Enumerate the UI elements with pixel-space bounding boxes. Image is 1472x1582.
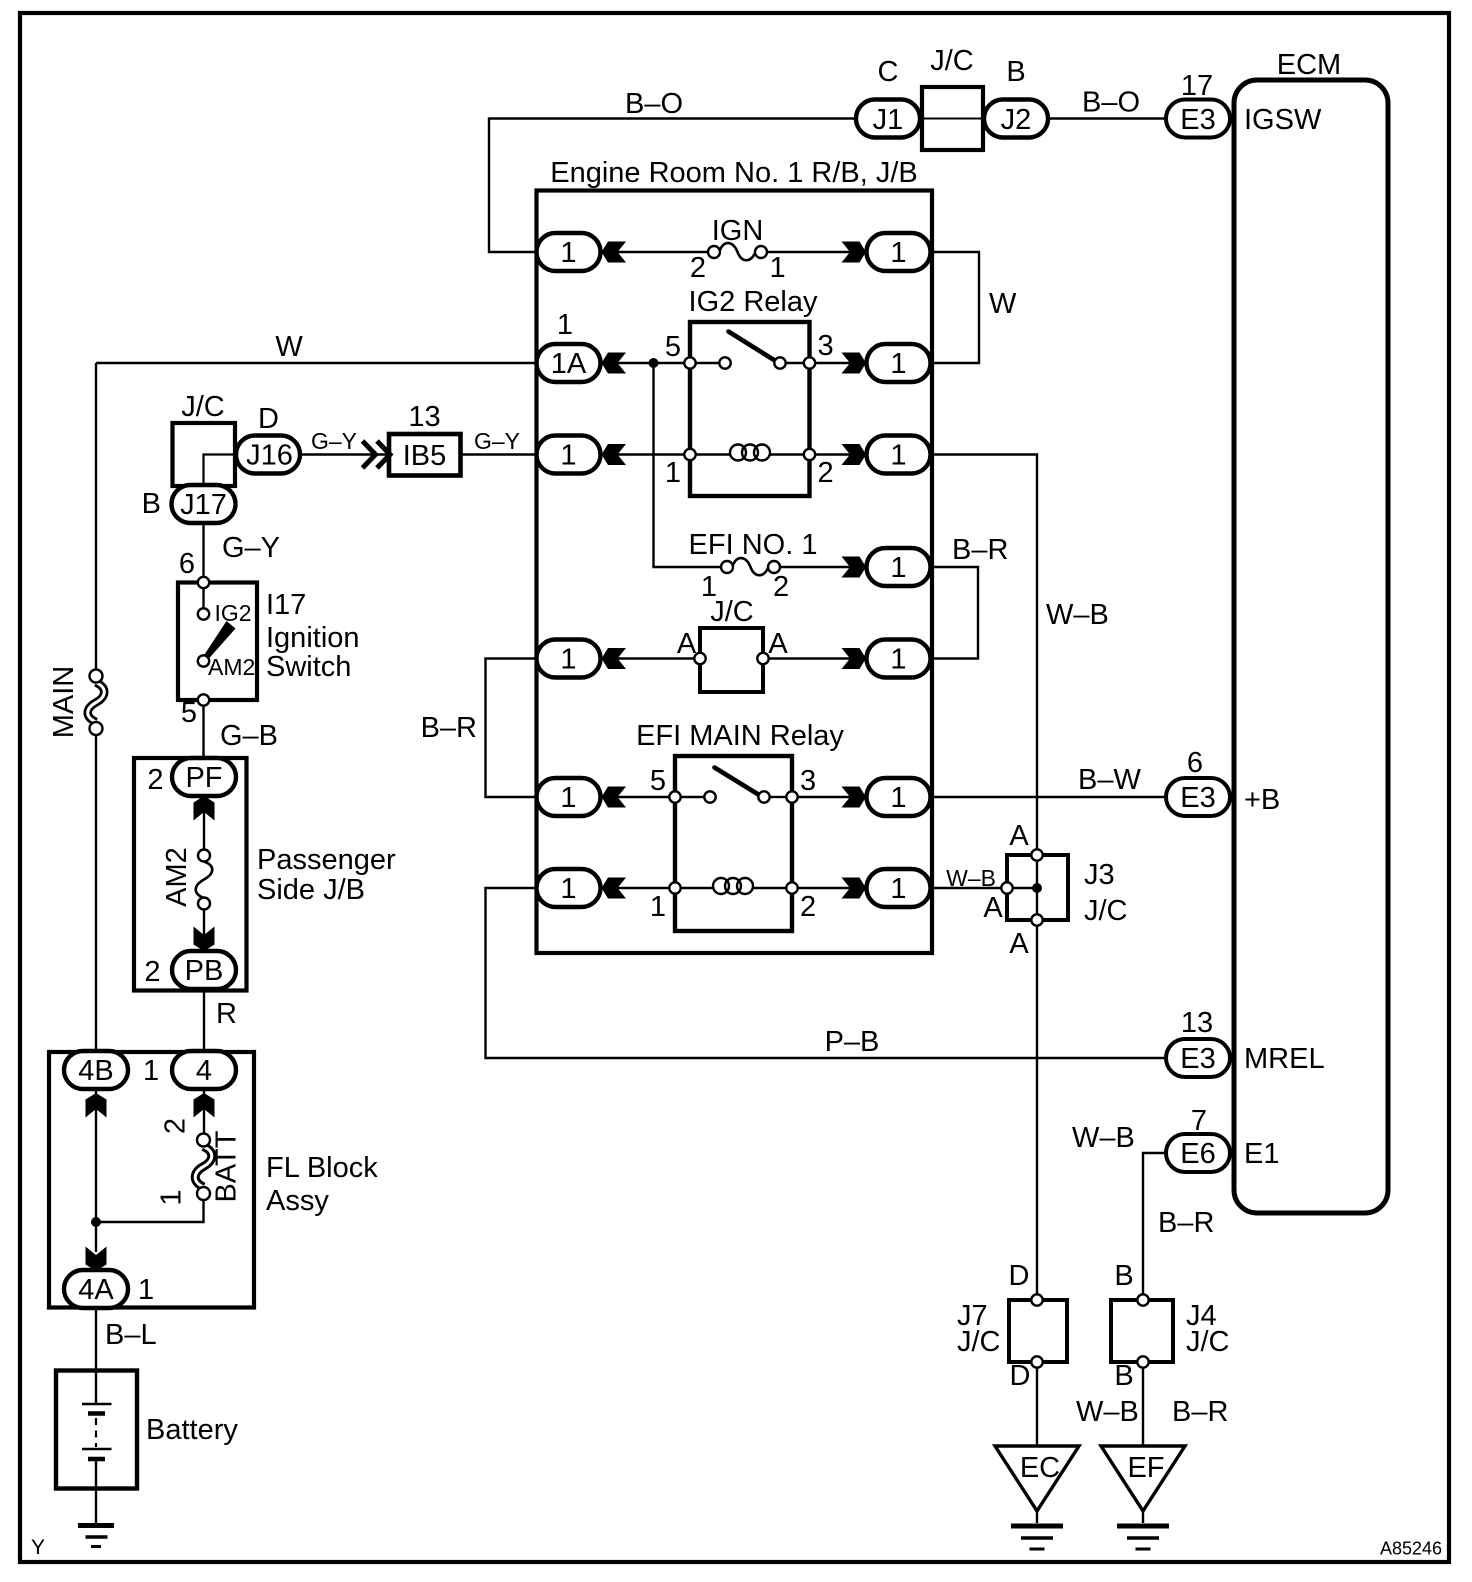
- wire EF triangle to ground: [1142, 1511, 1144, 1523]
- svg-text:IGSW: IGSW: [1244, 104, 1322, 136]
- wire row2: arrow to relay pin 5: [601, 362, 685, 364]
- relay IG2 pin 5 and pin 3 circles: [684, 357, 695, 368]
- wire row3: G-Y from IB5 to left oval: [461, 453, 537, 455]
- svg-text:E3: E3: [1180, 1043, 1215, 1075]
- svg-text:7: 7: [1191, 1105, 1207, 1137]
- svg-text:A: A: [983, 892, 1003, 924]
- svg-text:2: 2: [800, 891, 816, 923]
- junction dot on MAIN line at BATT branch: [91, 1217, 101, 1227]
- svg-text:6: 6: [1187, 747, 1203, 779]
- wire row5: arrow to EFI MAIN relay pin 5: [601, 796, 670, 798]
- svg-text:B–L: B–L: [105, 1319, 157, 1351]
- connector oval row1 right 1: [867, 233, 931, 271]
- relay EFI MAIN box: [675, 756, 792, 931]
- wire IGN row1 right: fuse pin 1 to right oval: [767, 251, 866, 253]
- junction connector J/C box row4: [700, 628, 763, 692]
- svg-text:6: 6: [179, 548, 195, 580]
- connector oval row3 right 1: [867, 436, 931, 474]
- wire row4: J/C pin A to right oval: [763, 657, 866, 659]
- svg-text:1: 1: [890, 873, 906, 905]
- relay EFI MAIN pin 5 and 3 circles: [669, 791, 680, 802]
- svg-text:PB: PB: [185, 955, 224, 987]
- connector oval J2: [984, 100, 1048, 138]
- wire IG2 relay internal pin5 lead: [696, 362, 720, 364]
- battery positive plate bottom: [82, 1448, 112, 1450]
- svg-text:B–R: B–R: [1172, 1396, 1228, 1428]
- svg-text:J/C: J/C: [1186, 1326, 1230, 1358]
- wire row6: coil pin 2 to right oval: [798, 887, 866, 889]
- svg-text:J3: J3: [1084, 859, 1115, 891]
- svg-text:J16: J16: [246, 440, 293, 472]
- svg-text:E1: E1: [1244, 1138, 1279, 1170]
- svg-text:1: 1: [156, 1189, 188, 1205]
- arrow down into PB oval: [194, 927, 215, 952]
- svg-text:D: D: [258, 403, 279, 435]
- junction connector J/C box top (J1/J2): [922, 87, 983, 150]
- connector oval row3 left 1: [537, 436, 601, 474]
- svg-text:1: 1: [143, 1055, 159, 1087]
- wire row2: relay pin 3 to right oval: [815, 362, 866, 364]
- svg-text:A: A: [768, 628, 788, 660]
- svg-text:2: 2: [144, 956, 160, 988]
- svg-text:Passenger: Passenger: [257, 844, 396, 876]
- wire EFI MAIN relay internal pin3 lead: [770, 796, 786, 798]
- svg-text:B–O: B–O: [625, 88, 683, 120]
- wire EFI MAIN coil leads: [681, 887, 786, 889]
- svg-text:W–B: W–B: [1076, 1396, 1139, 1428]
- svg-text:2: 2: [773, 571, 789, 603]
- svg-text:Side J/B: Side J/B: [257, 874, 365, 906]
- fuse EFI NO. 1 squiggle: [733, 558, 769, 575]
- wire IGN row1 left: arrow to fuse pin 2: [601, 251, 709, 253]
- connector oval 4A: [64, 1270, 128, 1308]
- ground triangle EF: [1101, 1446, 1185, 1511]
- wire ignition switch internal IG2: [202, 583, 204, 615]
- svg-text:B–O: B–O: [1082, 87, 1140, 119]
- connector oval E3 pin 17 IGSW: [1166, 100, 1230, 138]
- wire EFI NO.1 fuse to right oval: [780, 566, 866, 568]
- svg-text:J2: J2: [1001, 104, 1032, 136]
- junction connector J4 box: [1111, 1300, 1173, 1362]
- svg-text:1: 1: [890, 440, 906, 472]
- svg-text:EC: EC: [1020, 1452, 1060, 1484]
- coil of IG2 relay: [730, 445, 770, 461]
- svg-text:1: 1: [560, 644, 576, 676]
- inner step lines of left J/C box: [204, 455, 236, 487]
- connector oval PB: [172, 951, 236, 989]
- svg-text:D: D: [1009, 1260, 1030, 1292]
- fusible link MAIN squiggle: [88, 683, 105, 723]
- svg-text:J/C: J/C: [710, 596, 754, 628]
- svg-text:Y: Y: [31, 1536, 45, 1559]
- wire row5: relay pin 3 to right oval: [798, 796, 866, 798]
- wire MAIN vertical from W corner to fuse: [95, 363, 97, 670]
- wire inside top J/C box: [922, 118, 983, 120]
- svg-text:ECM: ECM: [1277, 49, 1341, 81]
- connector oval row2 left 1A: [537, 344, 601, 382]
- svg-text:Ignition: Ignition: [266, 622, 360, 654]
- arrow into row4 right oval: [842, 648, 867, 669]
- arrow into row3 left oval: [602, 444, 627, 465]
- svg-text:5: 5: [665, 331, 681, 363]
- svg-text:1: 1: [560, 237, 576, 269]
- wire B-R elbow from EFI NO.1 oval down to row4 right oval: [931, 567, 979, 659]
- wire from 4B oval to FL junction: [95, 1089, 97, 1252]
- connector oval EFI row right 1: [867, 548, 931, 586]
- ground symbol EC: [1011, 1526, 1063, 1549]
- J7 pin circles: [1031, 1294, 1042, 1305]
- svg-text:E6: E6: [1180, 1138, 1215, 1170]
- wire R from PB to FL oval 4: [203, 989, 205, 1051]
- relay IG2 switch blade: [729, 332, 775, 361]
- ground triangle EC: [995, 1446, 1079, 1511]
- relay IG2 box: [690, 322, 810, 496]
- fuse IGN squiggle: [720, 243, 756, 260]
- J4 pin circles: [1137, 1294, 1148, 1305]
- arrow into row5 left oval: [602, 787, 627, 808]
- connector oval E3 pin 6 +B: [1166, 778, 1230, 816]
- svg-text:2: 2: [818, 457, 834, 489]
- wire P-B from row6 left oval to E3 MREL: [486, 888, 1167, 1058]
- wire B-O from J1 to top-left elbow down to node 1 row1: [489, 119, 856, 253]
- connector oval E6 pin 7 E1: [1166, 1134, 1230, 1172]
- wire MAIN fuse to FL block oval 4B: [95, 735, 97, 1051]
- wire AM2 fuse to PB: [203, 909, 205, 951]
- FL Block Assy box: [49, 1052, 254, 1308]
- svg-text:B–W: B–W: [1078, 764, 1141, 796]
- wire EC triangle to ground: [1036, 1511, 1038, 1523]
- svg-text:A: A: [677, 628, 697, 660]
- arrow up into PF oval: [194, 796, 215, 821]
- svg-text:J/C: J/C: [1084, 895, 1128, 927]
- wire B-L from 4A oval to battery: [95, 1308, 97, 1404]
- svg-text:G–Y: G–Y: [474, 428, 520, 454]
- wire IG2 relay internal pin3 lead: [786, 362, 804, 364]
- svg-text:Battery: Battery: [146, 1414, 238, 1446]
- J3 pin circles: [1001, 882, 1012, 893]
- battery box: [56, 1371, 137, 1489]
- wire row3: coil pin 2 to right oval: [815, 453, 866, 455]
- junction connector J3 box: [1007, 855, 1068, 920]
- arrow into row5 right oval: [842, 787, 867, 808]
- arrow into row1 right oval: [842, 242, 867, 263]
- double chevron splice on G-Y wire: [363, 441, 391, 468]
- junction dot inside J3: [1032, 883, 1042, 893]
- arrow into row3 right oval: [842, 444, 867, 465]
- svg-text:13: 13: [408, 401, 440, 433]
- wire W-B from J7 to EC ground triangle: [1036, 1362, 1038, 1446]
- ECM block U-ECM: [1234, 80, 1388, 1213]
- svg-text:PF: PF: [185, 762, 222, 794]
- svg-text:IB5: IB5: [403, 440, 447, 472]
- svg-text:2: 2: [690, 252, 706, 284]
- wire from E6 elbow down to J4: [1143, 1153, 1168, 1300]
- connector oval J16: [236, 436, 300, 474]
- svg-text:B–R: B–R: [421, 712, 477, 744]
- svg-text:Switch: Switch: [266, 651, 351, 683]
- connector oval row5 left 1: [537, 778, 601, 816]
- svg-text:2: 2: [147, 764, 163, 796]
- wire J3 internal vertical: [1036, 855, 1038, 920]
- wire row4: arrow to J/C pin A: [601, 657, 702, 659]
- connector oval J17: [172, 485, 236, 523]
- svg-text:17: 17: [1181, 70, 1213, 102]
- wire J3 internal horizontal: [1007, 887, 1037, 889]
- wire B-R elbow from row4 left oval down to row5 left oval: [486, 659, 537, 798]
- svg-text:C: C: [878, 56, 899, 88]
- svg-text:1: 1: [890, 552, 906, 584]
- wire from oval 4 to BATT fuse: [203, 1089, 205, 1134]
- svg-text:3: 3: [818, 330, 834, 362]
- wire BATT fuse elbow to junction on MAIN line: [96, 1200, 204, 1223]
- svg-text:W–B: W–B: [946, 865, 996, 891]
- wire node A vertical from junction to EFI NO.1 fuse: [654, 363, 722, 567]
- svg-text:1: 1: [890, 782, 906, 814]
- svg-text:AM2: AM2: [208, 654, 255, 680]
- coil of EFI MAIN relay: [713, 878, 753, 894]
- svg-text:E3: E3: [1180, 782, 1215, 814]
- wire row3: arrow to coil pin 1: [601, 453, 685, 455]
- arrow into row2 right oval: [842, 353, 867, 374]
- svg-text:+B: +B: [1244, 784, 1280, 816]
- svg-text:IG2: IG2: [215, 600, 252, 626]
- svg-text:G–Y: G–Y: [311, 428, 357, 454]
- svg-text:1: 1: [560, 873, 576, 905]
- relay EFI MAIN switch blade: [715, 768, 761, 796]
- svg-text:J1: J1: [873, 104, 904, 136]
- connector oval row1 left 1: [537, 233, 601, 271]
- svg-text:G–Y: G–Y: [222, 532, 280, 564]
- wire IG2 coil leads: [696, 453, 804, 455]
- connector oval J1: [856, 100, 920, 138]
- svg-text:13: 13: [1181, 1007, 1213, 1039]
- svg-text:1: 1: [890, 348, 906, 380]
- svg-text:MREL: MREL: [1244, 1043, 1325, 1075]
- svg-text:R: R: [216, 998, 237, 1030]
- J/C row4 pin circles: [694, 653, 705, 664]
- fusible link MAIN pin circles: [90, 670, 103, 683]
- fuse IGN pin circles: [708, 246, 720, 258]
- wire EFI MAIN relay internal pin5 lead: [681, 796, 704, 798]
- arrow up into 4 oval: [194, 1093, 215, 1118]
- battery negative plate top: [88, 1411, 105, 1415]
- svg-text:4B: 4B: [78, 1055, 113, 1087]
- relay IG2 coil pin 1 and 2 circles: [684, 449, 695, 460]
- svg-text:EFI NO. 1: EFI NO. 1: [689, 529, 818, 561]
- fuse AM2 squiggle: [196, 862, 213, 899]
- wire W-B from row6 right oval to J3 pin A: [931, 887, 1008, 889]
- wire G-B ignition switch to PF: [202, 700, 204, 758]
- svg-text:FL Block: FL Block: [266, 1152, 378, 1184]
- svg-text:B: B: [1114, 1260, 1133, 1292]
- battery negative plate bottom: [88, 1457, 105, 1461]
- svg-text:W–B: W–B: [1046, 599, 1109, 631]
- wire J17 down to ignition switch: [202, 523, 204, 583]
- svg-text:A: A: [1009, 820, 1029, 852]
- battery cell dashed link: [95, 1418, 97, 1447]
- wire B-R from J4 to EF ground triangle: [1142, 1362, 1144, 1446]
- svg-text:AM2: AM2: [161, 847, 193, 907]
- arrow into row4 left oval: [602, 648, 627, 669]
- wire PF to AM2 fuse: [203, 796, 205, 850]
- wire battery internal and to ground: [95, 1459, 97, 1525]
- arrow into row6 right oval: [842, 878, 867, 899]
- svg-text:B: B: [1114, 1360, 1133, 1392]
- svg-text:B: B: [142, 488, 161, 520]
- svg-text:1: 1: [890, 644, 906, 676]
- svg-text:EFI MAIN Relay: EFI MAIN Relay: [636, 720, 844, 752]
- connector oval row4 left 1: [537, 640, 601, 678]
- connector oval row6 left 1: [537, 869, 601, 907]
- svg-text:1: 1: [665, 457, 681, 489]
- wire W-B from J3 to J7: [1036, 920, 1038, 1300]
- ground symbol under battery: [78, 1526, 114, 1547]
- arrow up into 4B oval: [86, 1093, 107, 1118]
- svg-text:1: 1: [138, 1274, 154, 1306]
- svg-text:1A: 1A: [551, 348, 587, 380]
- svg-text:1: 1: [770, 252, 786, 284]
- svg-text:3: 3: [800, 765, 816, 797]
- wire row6: arrow to coil pin 1: [601, 887, 670, 889]
- wire G-Y J16 to IB5: [302, 453, 390, 455]
- relay EFI MAIN coil pin 1 and 2 circles: [669, 882, 680, 893]
- Passenger Side J/B box: [134, 758, 247, 991]
- battery positive plate top: [82, 1403, 112, 1405]
- fusible link BATT squiggle: [195, 1147, 212, 1188]
- svg-text:5: 5: [181, 697, 197, 729]
- svg-text:1: 1: [650, 891, 666, 923]
- svg-text:J/C: J/C: [957, 1326, 1001, 1358]
- svg-text:B–R: B–R: [1158, 1207, 1214, 1239]
- connector oval E3 pin 13 MREL: [1166, 1039, 1230, 1077]
- ignition switch pin circles: [198, 577, 209, 588]
- arrow into row2 left oval: [602, 353, 627, 374]
- connector box IB5: [389, 434, 461, 476]
- arrow into EFI row right oval: [842, 557, 867, 578]
- svg-text:4A: 4A: [78, 1274, 114, 1306]
- svg-text:A: A: [1009, 928, 1029, 960]
- svg-text:W–B: W–B: [1072, 1122, 1135, 1154]
- connector oval 4: [172, 1051, 236, 1089]
- svg-text:1: 1: [890, 237, 906, 269]
- switch I17 ignition switch box: [178, 583, 257, 701]
- svg-text:P–B: P–B: [825, 1026, 880, 1058]
- svg-text:G–B: G–B: [220, 720, 278, 752]
- connector oval row6 right 1: [867, 869, 931, 907]
- fuse AM2 pin circles: [198, 850, 210, 862]
- wire W-B from row3 right oval to vertical drop: [931, 455, 1038, 850]
- wire W from MAIN line to oval 1A: [96, 362, 537, 364]
- fuse EFI NO.1 pin circles: [721, 561, 733, 573]
- svg-text:2: 2: [160, 1118, 192, 1134]
- svg-text:1: 1: [560, 440, 576, 472]
- svg-text:J/C: J/C: [181, 391, 225, 423]
- svg-text:MAIN: MAIN: [48, 666, 80, 739]
- svg-text:B: B: [1006, 56, 1025, 88]
- wire B-O from J2 to E3 IGSW: [1048, 117, 1166, 119]
- arrow into row1 left oval: [602, 242, 627, 263]
- svg-text:A85246: A85246: [1380, 1539, 1442, 1559]
- svg-text:D: D: [1010, 1360, 1031, 1392]
- junction connector J7 box: [1009, 1300, 1067, 1362]
- junction connector J/C box left (J16/J17): [173, 423, 236, 486]
- svg-text:5: 5: [650, 765, 666, 797]
- svg-text:IGN: IGN: [712, 215, 764, 247]
- wire B-W from row5 right oval to E3 +B: [931, 796, 1167, 798]
- fusible link BATT pin circles: [197, 1134, 210, 1147]
- arrow down into 4A oval: [86, 1247, 107, 1272]
- connector oval 4B: [64, 1051, 128, 1089]
- svg-text:IG2 Relay: IG2 Relay: [689, 286, 818, 318]
- svg-text:W: W: [275, 331, 303, 363]
- svg-text:Assy: Assy: [266, 1185, 329, 1217]
- connector oval row5 right 1: [867, 778, 931, 816]
- svg-text:1: 1: [557, 309, 573, 341]
- svg-text:BATT: BATT: [211, 1130, 243, 1202]
- svg-text:1: 1: [560, 782, 576, 814]
- connector oval row4 right 1: [867, 640, 931, 678]
- svg-text:I17: I17: [266, 589, 306, 621]
- svg-text:B–R: B–R: [952, 534, 1008, 566]
- ground symbol EF: [1117, 1526, 1169, 1549]
- svg-text:J/C: J/C: [930, 45, 974, 77]
- svg-text:EF: EF: [1127, 1452, 1164, 1484]
- svg-text:E3: E3: [1180, 104, 1215, 136]
- ignition switch blade: [205, 621, 236, 659]
- arrow into row6 left oval: [602, 878, 627, 899]
- connector oval PF: [172, 758, 236, 796]
- svg-text:Engine Room No. 1 R/B, J/B: Engine Room No. 1 R/B, J/B: [550, 157, 918, 189]
- svg-text:J17: J17: [180, 489, 227, 521]
- Engine Room No. 1 R/B, J/B block: [537, 191, 933, 954]
- svg-text:4: 4: [196, 1055, 212, 1087]
- wire W elbow joining row1 and row2 right ovals: [931, 252, 980, 363]
- junction dot at IG2 pin5 branch: [649, 358, 659, 368]
- svg-text:W: W: [989, 288, 1017, 320]
- connector oval row2 right 1: [867, 344, 931, 382]
